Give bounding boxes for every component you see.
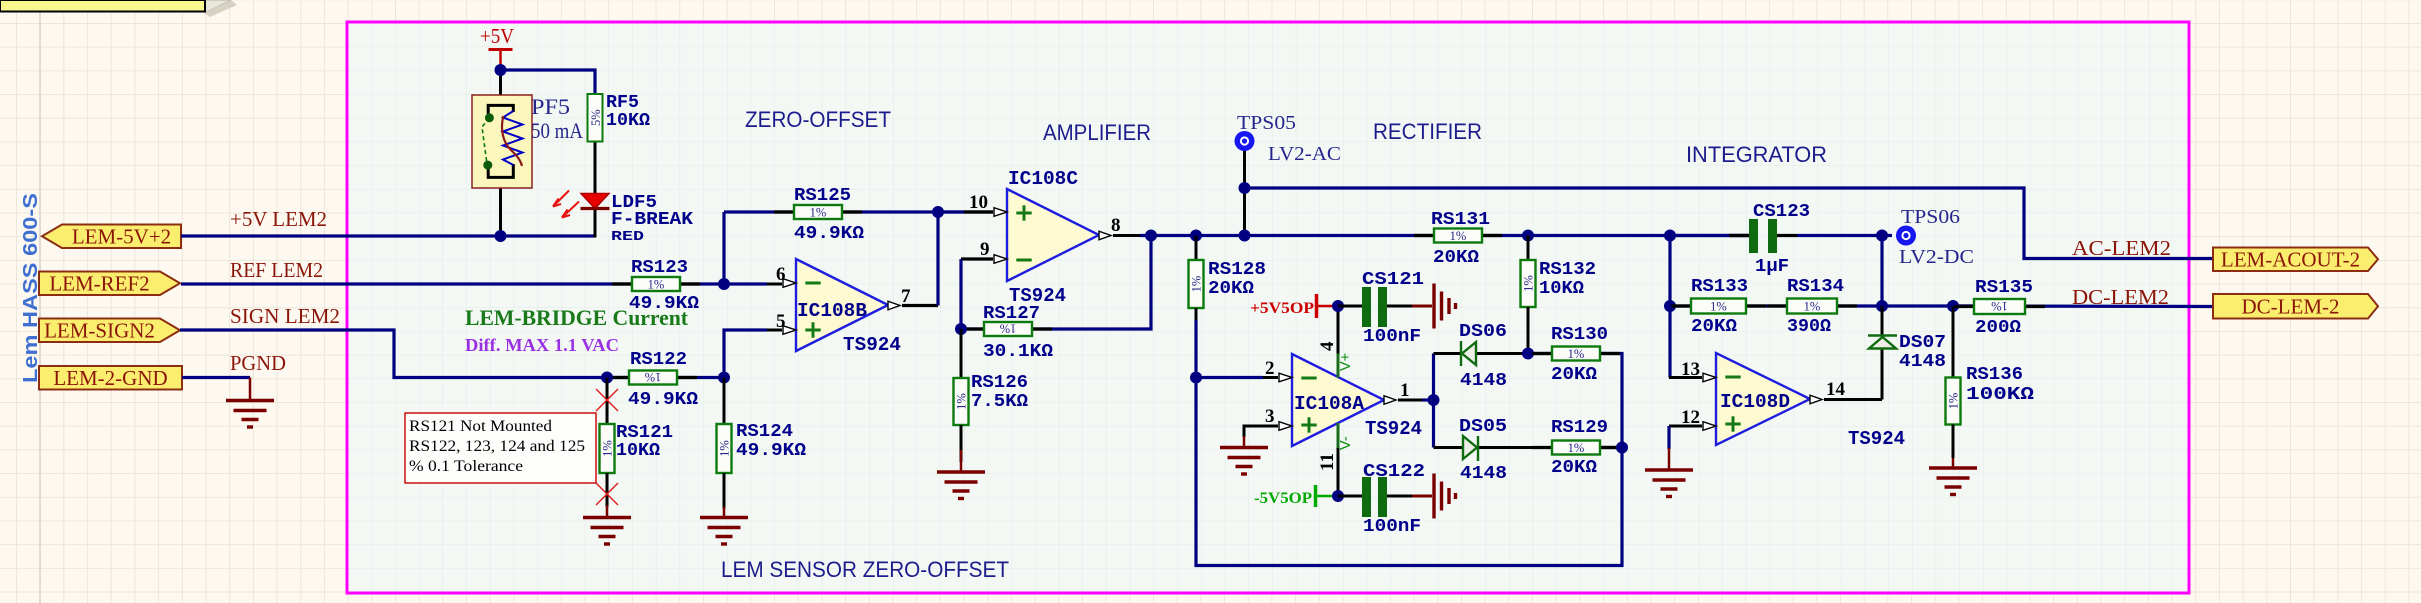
junction RS129/RS130 xyxy=(1616,442,1628,454)
junction CS123 branch xyxy=(1664,230,1676,242)
svg-text:IC108A: IC108A xyxy=(1294,393,1365,415)
svg-text:REF LEM2: REF LEM2 xyxy=(230,258,323,282)
svg-text:1%: 1% xyxy=(1710,299,1727,313)
wire RS132 stem xyxy=(1527,236,1530,261)
svg-text:LEM-5V+2: LEM-5V+2 xyxy=(72,224,171,248)
wire pin13 branch xyxy=(1668,306,1671,378)
wire main out net (y=236) xyxy=(1113,234,1140,237)
op-amp IC108D xyxy=(1716,353,1810,445)
svg-text:1%: 1% xyxy=(718,440,732,457)
wire feedback bottom loop xyxy=(1196,378,1622,566)
ground pin12 xyxy=(1668,448,1671,470)
svg-text:10KΩ: 10KΩ xyxy=(606,111,650,131)
svg-text:PF5: PF5 xyxy=(531,94,570,119)
svg-text:200Ω: 200Ω xyxy=(1975,318,2021,338)
svg-text:1%: 1% xyxy=(1991,299,2008,313)
not-fitted X upper xyxy=(596,389,618,411)
resistor RS136 xyxy=(1946,378,1961,425)
pin 8 arrow xyxy=(1099,231,1111,240)
svg-text:RS133: RS133 xyxy=(1691,277,1748,297)
svg-text:20KΩ: 20KΩ xyxy=(1551,365,1597,385)
pin 1 arrow xyxy=(1384,396,1396,405)
svg-text:1%: 1% xyxy=(1568,441,1585,455)
svg-text:IC108D: IC108D xyxy=(1720,391,1790,413)
svg-text:2: 2 xyxy=(1265,358,1275,379)
wire DS07 column xyxy=(1881,349,1884,400)
svg-text:1%: 1% xyxy=(648,277,665,291)
wire net REF LEM2 xyxy=(181,282,767,285)
svg-text:RF5: RF5 xyxy=(606,93,639,113)
resistor RS133 xyxy=(1671,304,1691,307)
svg-text:1%: 1% xyxy=(601,440,615,457)
wire pin 10 xyxy=(938,210,964,213)
wire pin5 branch xyxy=(724,330,767,378)
svg-text:DS07: DS07 xyxy=(1899,333,1946,353)
svg-text:RS132: RS132 xyxy=(1539,260,1596,280)
wire DC net xyxy=(1953,304,2213,308)
svg-text:LV2-DC: LV2-DC xyxy=(1899,246,1974,268)
svg-text:4148: 4148 xyxy=(1460,464,1507,484)
wire pin 9 xyxy=(961,257,993,260)
svg-text:20KΩ: 20KΩ xyxy=(1691,317,1737,337)
wire pin12 xyxy=(1669,425,1702,428)
wire DS06 row xyxy=(1434,352,1529,355)
ground RS121 xyxy=(606,505,609,518)
junction RS133 left xyxy=(1664,300,1676,312)
wire RS127 row xyxy=(961,236,1151,330)
junction REF/RS125 branch xyxy=(718,278,730,290)
svg-text:20KΩ: 20KΩ xyxy=(1551,458,1597,478)
svg-text:+5V5OP: +5V5OP xyxy=(1250,300,1314,317)
LED LDF5 xyxy=(553,191,610,218)
wire RS126 lower stem xyxy=(960,425,963,462)
svg-text:AC-LEM2: AC-LEM2 xyxy=(2072,236,2171,260)
wire RS130 row xyxy=(1528,354,1622,448)
svg-text:RECTIFIER: RECTIFIER xyxy=(1373,119,1482,144)
junction TPS05/AC xyxy=(1239,182,1251,194)
svg-text:4: 4 xyxy=(1317,341,1338,351)
svg-text:10: 10 xyxy=(969,192,988,213)
wire pin 2 xyxy=(1196,376,1263,379)
ground PGND xyxy=(249,378,252,401)
op-amp IC108B xyxy=(796,259,888,351)
resistor RS123 xyxy=(612,282,632,285)
svg-text:LEM-BRIDGE Current: LEM-BRIDGE Current xyxy=(465,305,689,330)
top-left yellow note (partial) xyxy=(205,0,231,13)
junction at +5V xyxy=(495,64,507,76)
svg-text:RED: RED xyxy=(611,230,644,245)
junction RS128 top xyxy=(1190,230,1202,242)
resistor RS127 xyxy=(964,327,984,330)
svg-text:9: 9 xyxy=(980,239,990,260)
svg-text:% 0.1 Tolerance: % 0.1 Tolerance xyxy=(409,458,523,475)
svg-text:49.9KΩ: 49.9KΩ xyxy=(736,441,806,461)
svg-text:7.5KΩ: 7.5KΩ xyxy=(971,392,1028,412)
svg-text:AMPLIFIER: AMPLIFIER xyxy=(1043,120,1151,145)
resistor RS122 xyxy=(609,376,629,379)
svg-text:1%: 1% xyxy=(645,370,662,384)
svg-text:RS122: RS122 xyxy=(630,350,687,370)
svg-text:1%: 1% xyxy=(1522,275,1536,292)
junction RS121 branch xyxy=(601,372,613,384)
resistor RS135 xyxy=(1954,305,1974,308)
svg-text:LEM-ACOUT-2: LEM-ACOUT-2 xyxy=(2221,247,2360,271)
wire DS05 row xyxy=(1434,446,1553,449)
junction pin1 xyxy=(1428,394,1440,406)
test point TPS05 xyxy=(1235,131,1255,151)
pin 3 arrow xyxy=(1279,422,1292,431)
wire RS121 stem xyxy=(606,378,609,425)
svg-text:RS130: RS130 xyxy=(1551,325,1608,345)
resistor RS126 xyxy=(954,378,969,425)
svg-text:TS924: TS924 xyxy=(1848,428,1905,450)
diode DS06 xyxy=(1462,342,1476,365)
ground RS124 xyxy=(723,507,726,518)
resistor RS124 xyxy=(717,424,732,473)
junction fuse bottom on +5V LEM2 net xyxy=(495,230,507,242)
wire RS124 stem xyxy=(723,378,726,425)
resistor RS132 xyxy=(1521,260,1536,307)
svg-text:RS135: RS135 xyxy=(1975,278,2033,298)
note RS121 Not Mounted xyxy=(405,413,596,483)
svg-text:14: 14 xyxy=(1826,379,1846,400)
svg-text:TPS06: TPS06 xyxy=(1901,206,1960,228)
svg-text:RS121 Not Mounted: RS121 Not Mounted xyxy=(409,418,552,435)
svg-text:12: 12 xyxy=(1681,407,1700,428)
pin 14 arrow xyxy=(1810,395,1822,404)
wire fuse bottom xyxy=(499,178,502,236)
svg-text:13: 13 xyxy=(1681,359,1700,380)
svg-text:+5V: +5V xyxy=(480,24,514,48)
svg-text:1%: 1% xyxy=(1804,299,1821,313)
svg-text:RS123: RS123 xyxy=(631,258,688,278)
junction pin11 xyxy=(1332,490,1344,502)
svg-text:100KΩ: 100KΩ xyxy=(1966,385,2034,405)
svg-text:ZERO-OFFSET: ZERO-OFFSET xyxy=(745,107,891,132)
resistor RS121 xyxy=(600,424,615,473)
svg-text:1μF: 1μF xyxy=(1755,257,1789,277)
svg-text:TS924: TS924 xyxy=(843,334,901,356)
svg-text:DC-LEM2: DC-LEM2 xyxy=(2072,285,2169,309)
junction RS124/pin5 branch xyxy=(718,372,730,384)
wire branch to RS125 xyxy=(722,212,725,284)
wire net +5V LEM2 xyxy=(181,234,595,237)
svg-text:RS124: RS124 xyxy=(736,422,793,442)
wire TPS05 stem xyxy=(1243,150,1246,236)
svg-text:TS924: TS924 xyxy=(1365,418,1422,440)
svg-text:5: 5 xyxy=(776,311,786,332)
svg-text:LV2-AC: LV2-AC xyxy=(1268,143,1341,165)
svg-text:RS136: RS136 xyxy=(1966,365,2023,385)
pin 5 arrow xyxy=(783,326,796,335)
svg-text:20KΩ: 20KΩ xyxy=(1433,248,1479,268)
wire RS121 lower stem xyxy=(606,473,609,507)
junction DS07 top xyxy=(1876,300,1888,312)
port LEM-ACOUT-2 xyxy=(2213,248,2378,272)
svg-text:49.9KΩ: 49.9KΩ xyxy=(794,224,864,244)
svg-text:6: 6 xyxy=(776,264,786,285)
svg-text:4148: 4148 xyxy=(1460,371,1507,391)
resistor RS125 xyxy=(774,210,794,213)
diode DS05 xyxy=(1463,436,1477,459)
svg-text:49.9KΩ: 49.9KΩ xyxy=(628,390,698,410)
schematic boundary (magenta rect) xyxy=(347,22,2189,593)
pin 9 arrow xyxy=(994,255,1007,264)
wire RS136 stem xyxy=(1952,306,1955,378)
svg-text:LEM-SIGN2: LEM-SIGN2 xyxy=(44,318,155,342)
svg-text:RS131: RS131 xyxy=(1431,210,1490,230)
wire AC feed line xyxy=(1245,188,2214,259)
svg-text:20KΩ: 20KΩ xyxy=(1208,279,1254,299)
junction RS125 out xyxy=(932,206,944,218)
port LEM-5V+2 xyxy=(42,225,181,249)
svg-text:1%: 1% xyxy=(1190,276,1204,293)
junction RS127/RS126/pin9 xyxy=(955,323,967,335)
svg-text:1%: 1% xyxy=(1450,229,1467,243)
pin 2 arrow xyxy=(1279,373,1292,382)
svg-text:5%: 5% xyxy=(589,109,603,126)
ground (antenna) CS122 xyxy=(1432,474,1435,519)
wire LED to net xyxy=(594,209,597,238)
wire RS124 lower stem xyxy=(723,473,726,509)
ground (antenna) CS121 xyxy=(1432,284,1435,329)
capacitor CS121 xyxy=(1338,305,1362,308)
svg-text:7: 7 xyxy=(901,286,911,307)
wire RS132 bottom xyxy=(1527,307,1530,354)
fuse PF5 xyxy=(472,95,532,188)
svg-text:30.1KΩ: 30.1KΩ xyxy=(983,342,1053,362)
svg-text:Diff. MAX 1.1 VAC: Diff. MAX 1.1 VAC xyxy=(465,335,619,355)
junction pin4 xyxy=(1332,300,1344,312)
wire pin1 out xyxy=(1398,399,1422,402)
wire RS126 stem xyxy=(960,329,963,378)
port DC-LEM-2 xyxy=(2213,294,2378,319)
svg-text:RS127: RS127 xyxy=(983,304,1040,324)
wire diode branch vertical xyxy=(1432,354,1435,448)
svg-text:IC108C: IC108C xyxy=(1008,168,1078,190)
svg-text:RS129: RS129 xyxy=(1551,418,1608,438)
pin 12 arrow xyxy=(1703,422,1716,431)
resistor RS131 xyxy=(1414,234,1434,237)
junction TPS05 stem to main xyxy=(1239,230,1251,242)
diode DS07 xyxy=(1869,337,1896,349)
wire RS128 to pin2 xyxy=(1195,308,1198,320)
svg-text:1%: 1% xyxy=(1947,393,1961,410)
svg-text:LEM SENSOR ZERO-OFFSET: LEM SENSOR ZERO-OFFSET xyxy=(721,557,1009,582)
ground RS136 xyxy=(1952,458,1955,468)
resistor RS134 xyxy=(1767,304,1787,307)
pin 6 arrow xyxy=(783,279,796,288)
wire RS136 lower stem xyxy=(1952,425,1955,459)
not-fitted X lower xyxy=(596,483,618,505)
svg-text:RS128: RS128 xyxy=(1208,260,1266,280)
svg-text:11: 11 xyxy=(1317,453,1338,471)
svg-text:CS121: CS121 xyxy=(1362,270,1424,290)
junction RS127 to out xyxy=(1145,230,1157,242)
svg-text:DC-LEM-2: DC-LEM-2 xyxy=(2242,294,2340,318)
sheet border line xyxy=(39,12,41,603)
svg-text:10KΩ: 10KΩ xyxy=(1539,279,1584,299)
pin 4 (V+) xyxy=(1337,306,1340,354)
svg-text:CS123: CS123 xyxy=(1753,202,1810,222)
wire RS133/RS134 row xyxy=(1670,304,1974,307)
svg-text:RS121: RS121 xyxy=(616,423,673,443)
pin 10 arrow xyxy=(994,208,1007,217)
port LEM-2-GND xyxy=(39,366,182,390)
svg-text:390Ω: 390Ω xyxy=(1787,317,1831,337)
svg-text:V-: V- xyxy=(1338,436,1354,450)
port LEM-REF2 xyxy=(39,272,180,296)
svg-text:RS122, 123, 124 and 125: RS122, 123, 124 and 125 xyxy=(409,438,585,455)
resistor RS130 xyxy=(1532,352,1552,355)
junction DS06/RS132 xyxy=(1522,348,1534,360)
svg-text:1%: 1% xyxy=(810,205,827,219)
resistor RS129 xyxy=(1600,446,1622,449)
svg-text:100nF: 100nF xyxy=(1363,517,1421,537)
svg-text:RS134: RS134 xyxy=(1787,277,1844,297)
svg-text:DS06: DS06 xyxy=(1459,322,1507,342)
svg-text:LEM-REF2: LEM-REF2 xyxy=(49,271,149,295)
ground pin3 xyxy=(1243,436,1246,448)
op-amp IC108A xyxy=(1292,354,1384,446)
wire CS123 left xyxy=(1668,236,1671,307)
wire net PGND xyxy=(182,376,250,379)
op-amp IC108C xyxy=(1007,189,1099,281)
wire pin14 out xyxy=(1824,398,1882,401)
junction CS123 right xyxy=(1876,230,1888,242)
svg-text:SIGN LEM2: SIGN LEM2 xyxy=(230,304,340,328)
sheet inner area (selection tint) xyxy=(347,22,2189,593)
svg-text:LEM-2-GND: LEM-2-GND xyxy=(53,366,167,390)
wire fuse top xyxy=(499,70,502,104)
svg-text:IC108B: IC108B xyxy=(797,300,867,322)
pin 7 arrow xyxy=(888,301,900,310)
svg-text:8: 8 xyxy=(1111,215,1121,236)
svg-text:10KΩ: 10KΩ xyxy=(616,441,660,461)
wire pin 3 xyxy=(1244,426,1278,437)
junction pin2/feedback xyxy=(1190,372,1202,384)
svg-text:INTEGRATOR: INTEGRATOR xyxy=(1686,142,1827,167)
svg-text:TPS05: TPS05 xyxy=(1237,112,1296,134)
ground RS126 xyxy=(960,450,963,472)
svg-text:DS05: DS05 xyxy=(1459,417,1507,437)
pin 11 (V-) xyxy=(1337,423,1340,448)
svg-text:-5V5OP: -5V5OP xyxy=(1254,490,1312,507)
svg-text:RS125: RS125 xyxy=(794,186,851,206)
svg-text:100nF: 100nF xyxy=(1363,327,1421,347)
svg-text:+5V LEM2: +5V LEM2 xyxy=(230,207,327,231)
svg-text:F-BREAK: F-BREAK xyxy=(611,210,693,230)
svg-text:V+: V+ xyxy=(1338,353,1354,371)
svg-text:50 mA: 50 mA xyxy=(531,118,583,143)
capacitor CS122 xyxy=(1338,495,1362,498)
wire DC node vertical xyxy=(1880,236,1883,307)
wire RS125 row xyxy=(724,210,993,213)
junction RS132 top xyxy=(1522,230,1534,242)
pin 13 arrow xyxy=(1703,373,1716,382)
test point TPS06 xyxy=(1896,226,1916,246)
svg-text:3: 3 xyxy=(1265,406,1275,427)
wire IC108B out up to RS125 xyxy=(902,304,938,307)
svg-text:1%: 1% xyxy=(1568,347,1585,361)
resistor RF5 xyxy=(588,94,603,142)
junction RS136 top xyxy=(1947,300,1959,312)
wire net SIGN LEM2 xyxy=(180,330,724,378)
resistor RS128 xyxy=(1189,260,1204,308)
svg-text:1%: 1% xyxy=(955,393,969,410)
svg-text:1: 1 xyxy=(1400,380,1410,401)
capacitor CS123 xyxy=(1670,234,1749,237)
svg-text:RS126: RS126 xyxy=(971,373,1028,393)
svg-text:CS122: CS122 xyxy=(1363,462,1425,482)
wire RF5 to LED xyxy=(594,142,597,195)
port LEM-SIGN2 xyxy=(39,319,180,343)
wire +5V junction to RF5 xyxy=(501,70,596,94)
svg-text:PGND: PGND xyxy=(230,351,286,375)
svg-text:4148: 4148 xyxy=(1899,352,1946,372)
wire RS128 stem top xyxy=(1195,236,1198,261)
